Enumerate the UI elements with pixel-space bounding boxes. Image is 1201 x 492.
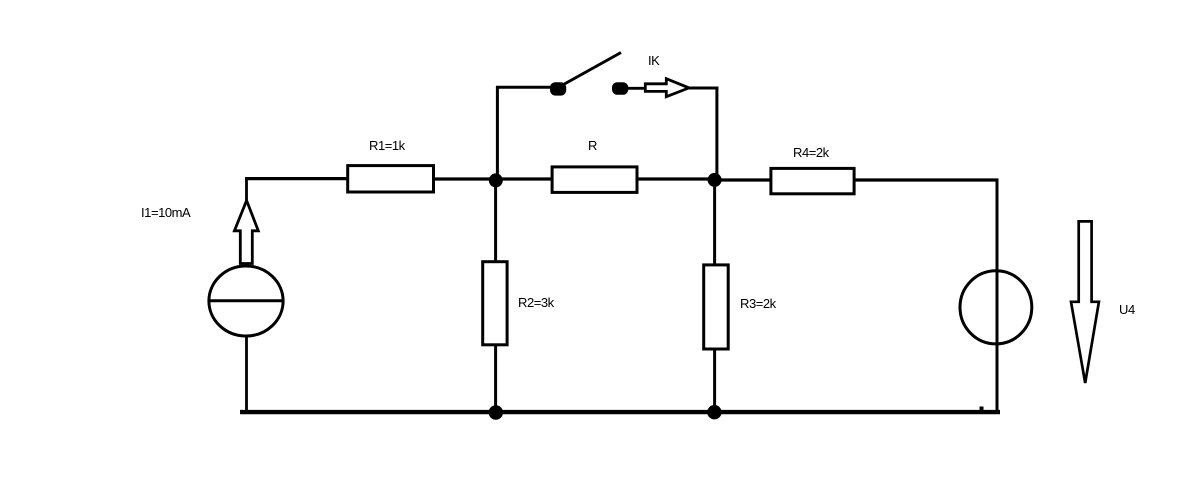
- wire R2 to bottom rail: [494, 344, 497, 412]
- resistor R4: [771, 168, 854, 193]
- switch left contact dot: [550, 82, 566, 95]
- svg-text:R2=3k: R2=3k: [518, 295, 555, 310]
- current source I1 circle: [209, 266, 283, 336]
- voltage arrow U4: [1071, 221, 1099, 383]
- wire switch riser right: [715, 87, 718, 177]
- wire R to node B: [637, 177, 716, 180]
- svg-text:R: R: [588, 138, 597, 153]
- wire R1 to node A: [434, 177, 498, 180]
- switch right contact dot: [612, 82, 628, 95]
- wire left vertical corner to source arrow: [245, 177, 248, 201]
- svg-text:R1=1k: R1=1k: [369, 138, 406, 153]
- svg-text:IK: IK: [648, 53, 660, 68]
- node A junction dot: [489, 173, 503, 187]
- svg-text:R3=2k: R3=2k: [740, 296, 777, 311]
- current source arrow I1: [234, 201, 258, 264]
- switch blade diagonal: [564, 53, 622, 85]
- wire node A to R: [495, 177, 553, 180]
- wire IK arrow to right corner: [688, 87, 718, 90]
- svg-text:U4: U4: [1119, 302, 1135, 317]
- resistor R1: [348, 166, 434, 192]
- bottom junction dot under R3: [707, 405, 721, 419]
- current arrow IK: [645, 79, 689, 97]
- wire right dot to IK arrow: [627, 87, 646, 90]
- wire node B down to R3: [713, 179, 716, 266]
- wire R4 to right corner: [854, 178, 999, 181]
- bottom junction dot under R2: [489, 405, 503, 419]
- wire top rail left segment: [245, 177, 348, 180]
- resistor R2: [483, 262, 507, 345]
- wire node A down to R2: [494, 179, 497, 262]
- resistor R3: [704, 265, 729, 349]
- node B junction dot: [708, 173, 722, 187]
- wire switch riser left: [496, 86, 499, 179]
- voltage source U4 circle: [960, 271, 1032, 344]
- wire right vertical: [996, 179, 999, 413]
- wire R3 to bottom rail: [713, 348, 716, 412]
- stray tick near bottom right: [980, 407, 984, 411]
- svg-text:R4=2k: R4=2k: [793, 145, 830, 160]
- wire bottom rail: [240, 410, 1000, 414]
- wire I1 bottom stub: [245, 336, 248, 412]
- current source I1 chord line: [209, 299, 284, 302]
- resistor R: [552, 167, 637, 193]
- wire switch top left horizontal: [496, 86, 552, 89]
- wire node B to R4: [713, 178, 772, 181]
- svg-text:I1=10mA: I1=10mA: [141, 205, 191, 220]
